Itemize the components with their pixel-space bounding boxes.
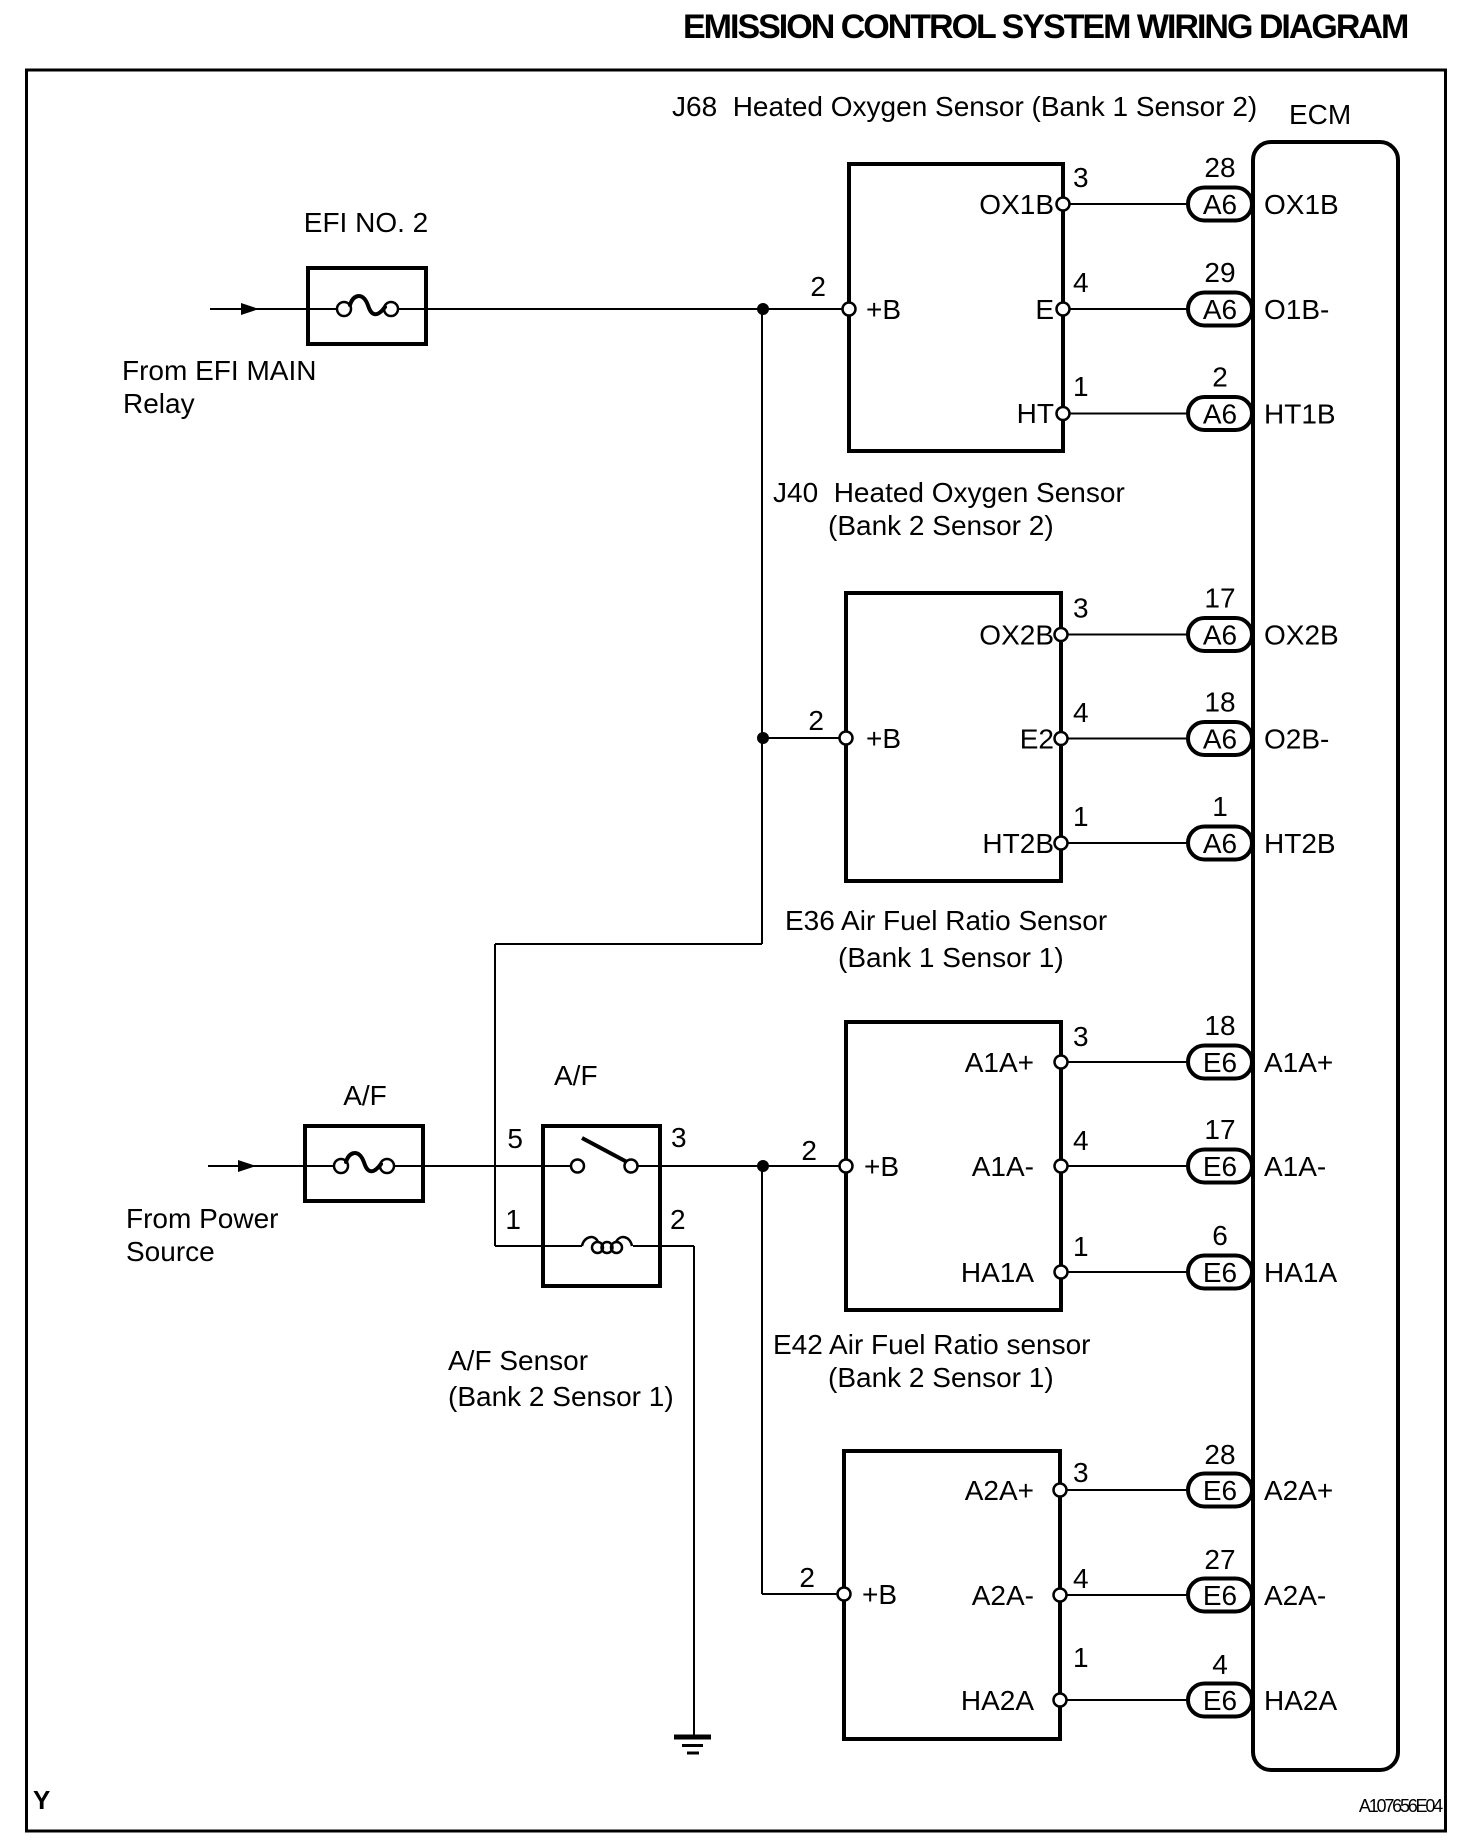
svg-text:OX1B: OX1B xyxy=(979,189,1054,220)
svg-text:HA2A: HA2A xyxy=(1264,1685,1337,1716)
connector A6 pin 28 (OX1B) xyxy=(1188,152,1252,221)
svg-text:A6: A6 xyxy=(1203,294,1237,325)
svg-text:EMISSION CONTROL SYSTEM WIRING: EMISSION CONTROL SYSTEM WIRING DIAGRAM xyxy=(683,8,1408,46)
wire: node B to J40 +B xyxy=(762,737,846,739)
connector E6 pin 6 (HA1A) xyxy=(1188,1220,1252,1289)
wire: vertical power bus from node A down to corner xyxy=(761,309,763,944)
pin number 3 of E36 xyxy=(1073,1021,1089,1052)
svg-text:OX1B: OX1B xyxy=(1264,189,1339,220)
ECM pin label A2A- xyxy=(1264,1580,1326,1611)
svg-text:E2: E2 xyxy=(1020,724,1054,755)
svg-text:27: 27 xyxy=(1204,1544,1235,1575)
terminal +B of E36 xyxy=(840,1160,853,1173)
sensor E42 Air Fuel Ratio sensor box xyxy=(844,1451,1060,1739)
svg-text:(Bank 2 Sensor 2): (Bank 2 Sensor 2) xyxy=(828,510,1054,541)
terminal +B of E42 xyxy=(838,1588,851,1601)
wire: J68 E to A6 xyxy=(1063,308,1188,310)
svg-text:J68 Heated Oxygen Sensor (Ban: J68 Heated Oxygen Sensor (Bank 1 Sensor … xyxy=(672,91,1257,122)
wire: E36 A1A- to E6 xyxy=(1061,1165,1188,1167)
connector E6 pin 18 (A1A+) xyxy=(1188,1010,1252,1079)
pin label A2A- of E42 xyxy=(972,1580,1034,1611)
wire: vertical drop to ground xyxy=(693,1246,695,1736)
pin label OX1B of J68 xyxy=(979,189,1054,220)
wire: J68 OX1B to A6 xyxy=(1063,203,1188,205)
wire: feed from EFI MAIN Relay with arrowhead xyxy=(210,303,344,315)
svg-text:(Bank 2 Sensor 1): (Bank 2 Sensor 1) xyxy=(448,1381,674,1412)
svg-text:2: 2 xyxy=(808,705,824,736)
fuse A/F xyxy=(305,1126,423,1201)
svg-text:2: 2 xyxy=(799,1562,815,1593)
junction node B at J40 +B feed xyxy=(758,733,769,744)
svg-text:OX2B: OX2B xyxy=(979,620,1054,651)
svg-text:From EFI MAIN: From EFI MAIN xyxy=(122,355,316,386)
wire: J40 E2 to A6 xyxy=(1061,738,1188,740)
svg-text:+B: +B xyxy=(866,294,901,325)
label From EFI MAIN Relay xyxy=(122,355,316,419)
connector E6 pin 4 (HA2A) xyxy=(1188,1649,1252,1717)
terminal E2 of J40 xyxy=(1055,732,1068,745)
sensor J68 Heated Oxygen Sensor box xyxy=(849,164,1063,451)
svg-text:28: 28 xyxy=(1204,1439,1235,1470)
svg-text:A6: A6 xyxy=(1203,828,1237,859)
label From Power Source xyxy=(126,1203,278,1267)
wire: E36 A1A+ to E6 xyxy=(1061,1061,1188,1063)
svg-text:E6: E6 xyxy=(1203,1151,1237,1182)
pin number 4 of J68 xyxy=(1073,267,1089,298)
label E42 Air Fuel Ratio sensor (Bank 2 Sensor 1) xyxy=(773,1329,1091,1393)
wire: J40 OX2B to A6 xyxy=(1061,634,1188,636)
label A/F (relay) xyxy=(554,1060,598,1091)
svg-text:4: 4 xyxy=(1073,697,1089,728)
svg-text:A2A-: A2A- xyxy=(972,1580,1034,1611)
svg-text:1: 1 xyxy=(1073,1231,1089,1262)
svg-text:E6: E6 xyxy=(1203,1580,1237,1611)
sensor E36 Air Fuel Ratio Sensor box xyxy=(846,1022,1061,1310)
svg-text:HA1A: HA1A xyxy=(1264,1257,1337,1288)
pin number 1 of J40 xyxy=(1073,801,1089,832)
svg-text:A1A-: A1A- xyxy=(1264,1151,1326,1182)
svg-text:A/F: A/F xyxy=(554,1060,598,1091)
svg-text:A107656E04: A107656E04 xyxy=(1359,1796,1443,1816)
pin number 1 of E36 xyxy=(1073,1231,1089,1262)
pin label +B of E36 xyxy=(864,1151,899,1182)
wire: E42 HA2A to E6 xyxy=(1060,1699,1188,1701)
svg-text:Relay: Relay xyxy=(123,388,195,419)
svg-text:A2A-: A2A- xyxy=(1264,1580,1326,1611)
svg-text:+B: +B xyxy=(866,723,901,754)
wire: relay coil pin 2 to ground drop xyxy=(633,1245,694,1247)
terminal HA1A of E36 xyxy=(1055,1266,1068,1279)
svg-text:E: E xyxy=(1035,294,1054,325)
connector A6 pin 18 (O2B-) xyxy=(1188,687,1252,756)
svg-text:A6: A6 xyxy=(1203,620,1237,651)
svg-text:1: 1 xyxy=(1073,1642,1089,1673)
svg-text:18: 18 xyxy=(1204,1010,1235,1041)
svg-text:A1A+: A1A+ xyxy=(965,1047,1034,1078)
svg-text:EFI NO. 2: EFI NO. 2 xyxy=(304,207,428,238)
connector A6 pin 2 (HT1B) xyxy=(1188,362,1252,431)
svg-text:5: 5 xyxy=(507,1123,523,1154)
svg-text:E42 Air Fuel Ratio sensor: E42 Air Fuel Ratio sensor xyxy=(773,1329,1091,1360)
junction node A at J68 +B feed xyxy=(758,304,769,315)
wire: J68 HT to A6 xyxy=(1063,413,1188,415)
pin number 3 of J68 xyxy=(1073,162,1089,193)
pin number 1 of relay xyxy=(505,1204,521,1235)
svg-text:A1A+: A1A+ xyxy=(1264,1047,1333,1078)
pin number 1 of J68 xyxy=(1073,371,1089,402)
pin number 4 of E42 xyxy=(1073,1563,1089,1594)
ECM pin label OX2B xyxy=(1264,620,1339,651)
wire: to E42 +B xyxy=(762,1593,844,1595)
svg-text:HT2B: HT2B xyxy=(982,828,1054,859)
svg-text:HT: HT xyxy=(1017,398,1054,429)
wire: horizontal jog to relay coil column xyxy=(495,943,762,945)
svg-text:J40 Heated Oxygen Sensor: J40 Heated Oxygen Sensor xyxy=(773,477,1125,508)
label A/F (fuse) xyxy=(343,1080,387,1111)
svg-text:A6: A6 xyxy=(1203,399,1237,430)
svg-text:17: 17 xyxy=(1204,1114,1235,1145)
svg-text:OX2B: OX2B xyxy=(1264,620,1339,651)
svg-text:A1A-: A1A- xyxy=(972,1151,1034,1182)
svg-text:(Bank 2 Sensor 1): (Bank 2 Sensor 1) xyxy=(828,1362,1054,1393)
pin number 4 of J40 xyxy=(1073,697,1089,728)
svg-text:29: 29 xyxy=(1204,257,1235,288)
ECM pin label A2A+ xyxy=(1264,1475,1333,1506)
pin number 2 at E36 +B xyxy=(801,1135,817,1166)
pin number 2 of relay xyxy=(670,1204,686,1235)
pin label +B of J68 xyxy=(866,294,901,325)
wire: relay coil pin 1 feed xyxy=(495,1245,582,1247)
svg-text:ECM: ECM xyxy=(1289,99,1351,130)
svg-text:Source: Source xyxy=(126,1236,215,1267)
terminal A1A- of E36 xyxy=(1055,1160,1068,1173)
terminal +B of J68 xyxy=(843,303,856,316)
terminal OX1B of J68 xyxy=(1057,198,1070,211)
relay switch contacts and lever xyxy=(571,1138,638,1173)
ECM pin label A1A+ xyxy=(1264,1047,1333,1078)
svg-text:2: 2 xyxy=(1212,362,1228,393)
label A/F Sensor (Bank 2 Sensor 1) xyxy=(448,1345,674,1412)
wire: E42 A2A+ to E6 xyxy=(1060,1489,1188,1491)
svg-text:1: 1 xyxy=(1212,791,1228,822)
pin number 3 of relay xyxy=(671,1122,687,1153)
junction node C at E36 +B feed xyxy=(758,1161,769,1172)
label J40 Heated Oxygen Sensor (Bank 2 Sensor 2) xyxy=(773,477,1125,541)
pin number 5 of relay xyxy=(507,1123,523,1154)
wire: A/F fuse to relay contact 5 xyxy=(387,1165,578,1167)
ECM pin label O2B- xyxy=(1264,724,1329,755)
terminal A2A+ of E42 xyxy=(1054,1484,1067,1497)
label Y page marker xyxy=(33,1785,50,1815)
svg-text:E6: E6 xyxy=(1203,1685,1237,1716)
connector A6 pin 17 (OX2B) xyxy=(1188,583,1252,652)
svg-text:A6: A6 xyxy=(1203,189,1237,220)
wire: E42 A2A- to E6 xyxy=(1060,1594,1188,1596)
connector E6 pin 28 (A2A+) xyxy=(1188,1439,1252,1507)
pin label HA2A of E42 xyxy=(961,1685,1034,1716)
ECM pin label A1A- xyxy=(1264,1151,1326,1182)
terminal HT of J68 xyxy=(1057,407,1070,420)
svg-text:3: 3 xyxy=(1073,162,1089,193)
svg-text:4: 4 xyxy=(1073,1125,1089,1156)
terminal +B of J40 xyxy=(840,732,853,745)
wire: EFI fuse to J68 +B xyxy=(391,308,849,310)
wire: J40 HT2B to A6 xyxy=(1061,842,1188,844)
svg-text:17: 17 xyxy=(1204,583,1235,614)
svg-text:2: 2 xyxy=(810,271,826,302)
connector A6 pin 1 (HT2B) xyxy=(1188,791,1252,860)
relay coil xyxy=(582,1237,632,1253)
pin number 3 of J40 xyxy=(1073,593,1089,624)
svg-text:2: 2 xyxy=(670,1204,686,1235)
svg-text:E6: E6 xyxy=(1203,1257,1237,1288)
pin label +B of E42 xyxy=(862,1579,897,1610)
relay A/F box xyxy=(543,1126,660,1286)
svg-text:HA1A: HA1A xyxy=(961,1257,1034,1288)
svg-text:1: 1 xyxy=(1073,371,1089,402)
ground xyxy=(674,1737,711,1753)
svg-text:HT1B: HT1B xyxy=(1264,399,1336,430)
label drawing number A107656E04 xyxy=(1359,1796,1443,1816)
wire: vertical drop node C to E42 +B xyxy=(761,1166,763,1594)
wire: feed from Power Source with arrowhead xyxy=(208,1160,341,1172)
svg-text:3: 3 xyxy=(1073,593,1089,624)
ECM pin label OX1B xyxy=(1264,189,1339,220)
svg-text:3: 3 xyxy=(1073,1021,1089,1052)
svg-text:1: 1 xyxy=(1073,801,1089,832)
wire: relay contact 3 to node C and E36 +B xyxy=(631,1165,846,1167)
pin label A2A+ of E42 xyxy=(965,1475,1034,1506)
ECM connector body xyxy=(1253,142,1398,1770)
pin label E2 of J40 xyxy=(1020,724,1054,755)
ECM pin label HA1A xyxy=(1264,1257,1337,1288)
svg-text:28: 28 xyxy=(1204,152,1235,183)
terminal HT2B of J40 xyxy=(1055,837,1068,850)
svg-text:O2B-: O2B- xyxy=(1264,724,1329,755)
terminal OX2B of J40 xyxy=(1055,628,1068,641)
svg-text:4: 4 xyxy=(1212,1649,1228,1680)
svg-text:A2A+: A2A+ xyxy=(1264,1475,1333,1506)
fuse EFI NO. 2 xyxy=(308,268,426,344)
pin number 2 at J68 +B xyxy=(810,271,826,302)
label E36 Air Fuel Ratio Sensor (Bank 1 Sensor 1) xyxy=(785,905,1107,973)
ECM pin label HT1B xyxy=(1264,399,1336,430)
pin label HA1A of E36 xyxy=(961,1257,1034,1288)
sensor J40 Heated Oxygen Sensor box xyxy=(846,593,1061,881)
svg-text:A2A+: A2A+ xyxy=(965,1475,1034,1506)
svg-text:(Bank 1 Sensor 1): (Bank 1 Sensor 1) xyxy=(838,942,1064,973)
svg-text:E6: E6 xyxy=(1203,1475,1237,1506)
svg-text:4: 4 xyxy=(1073,267,1089,298)
pin number 2 at E42 +B xyxy=(799,1562,815,1593)
svg-text:6: 6 xyxy=(1212,1220,1228,1251)
svg-text:3: 3 xyxy=(671,1122,687,1153)
pin label OX2B of J40 xyxy=(979,620,1054,651)
svg-text:From Power: From Power xyxy=(126,1203,278,1234)
svg-text:A6: A6 xyxy=(1203,724,1237,755)
pin number 1 of E42 xyxy=(1073,1642,1089,1673)
pin number 4 of E36 xyxy=(1073,1125,1089,1156)
svg-text:O1B-: O1B- xyxy=(1264,294,1329,325)
ECM pin label HT2B xyxy=(1264,828,1336,859)
svg-text:E36 Air Fuel Ratio Sensor: E36 Air Fuel Ratio Sensor xyxy=(785,905,1107,936)
pin number 2 at J40 +B xyxy=(808,705,824,736)
svg-text:4: 4 xyxy=(1073,1563,1089,1594)
title EMISSION CONTROL SYSTEM WIRING DIAGRAM xyxy=(683,8,1408,46)
svg-text:Y: Y xyxy=(33,1785,50,1815)
terminal A1A+ of E36 xyxy=(1055,1056,1068,1069)
pin label E of J68 xyxy=(1035,294,1054,325)
pin label A1A- of E36 xyxy=(972,1151,1034,1182)
pin label HT2B of J40 xyxy=(982,828,1054,859)
connector E6 pin 17 (A1A-) xyxy=(1188,1114,1252,1183)
connector E6 pin 27 (A2A-) xyxy=(1188,1544,1252,1612)
label EFI NO. 2 xyxy=(304,207,428,238)
svg-text:E6: E6 xyxy=(1203,1047,1237,1078)
svg-text:+B: +B xyxy=(864,1151,899,1182)
label ECM xyxy=(1289,99,1351,130)
terminal E of J68 xyxy=(1057,303,1070,316)
wire: vertical drop to relay coil pin 1 xyxy=(494,944,496,1246)
svg-text:+B: +B xyxy=(862,1579,897,1610)
svg-text:A/F Sensor: A/F Sensor xyxy=(448,1345,588,1376)
svg-text:3: 3 xyxy=(1073,1457,1089,1488)
ECM pin label HA2A xyxy=(1264,1685,1337,1716)
wire: E36 HA1A to E6 xyxy=(1061,1271,1188,1273)
svg-text:A/F: A/F xyxy=(343,1080,387,1111)
pin label A1A+ of E36 xyxy=(965,1047,1034,1078)
ECM pin label O1B- xyxy=(1264,294,1329,325)
terminal HA2A of E42 xyxy=(1054,1694,1067,1707)
pin number 3 of E42 xyxy=(1073,1457,1089,1488)
pin label HT of J68 xyxy=(1017,398,1054,429)
label J68 Heated Oxygen Sensor (Bank 1 Sensor 2) xyxy=(672,91,1257,122)
svg-text:18: 18 xyxy=(1204,687,1235,718)
svg-text:2: 2 xyxy=(801,1135,817,1166)
svg-text:HA2A: HA2A xyxy=(961,1685,1034,1716)
connector A6 pin 29 (O1B-) xyxy=(1188,257,1252,326)
pin label +B of J40 xyxy=(866,723,901,754)
svg-text:HT2B: HT2B xyxy=(1264,828,1336,859)
terminal A2A- of E42 xyxy=(1054,1589,1067,1602)
svg-text:1: 1 xyxy=(505,1204,521,1235)
